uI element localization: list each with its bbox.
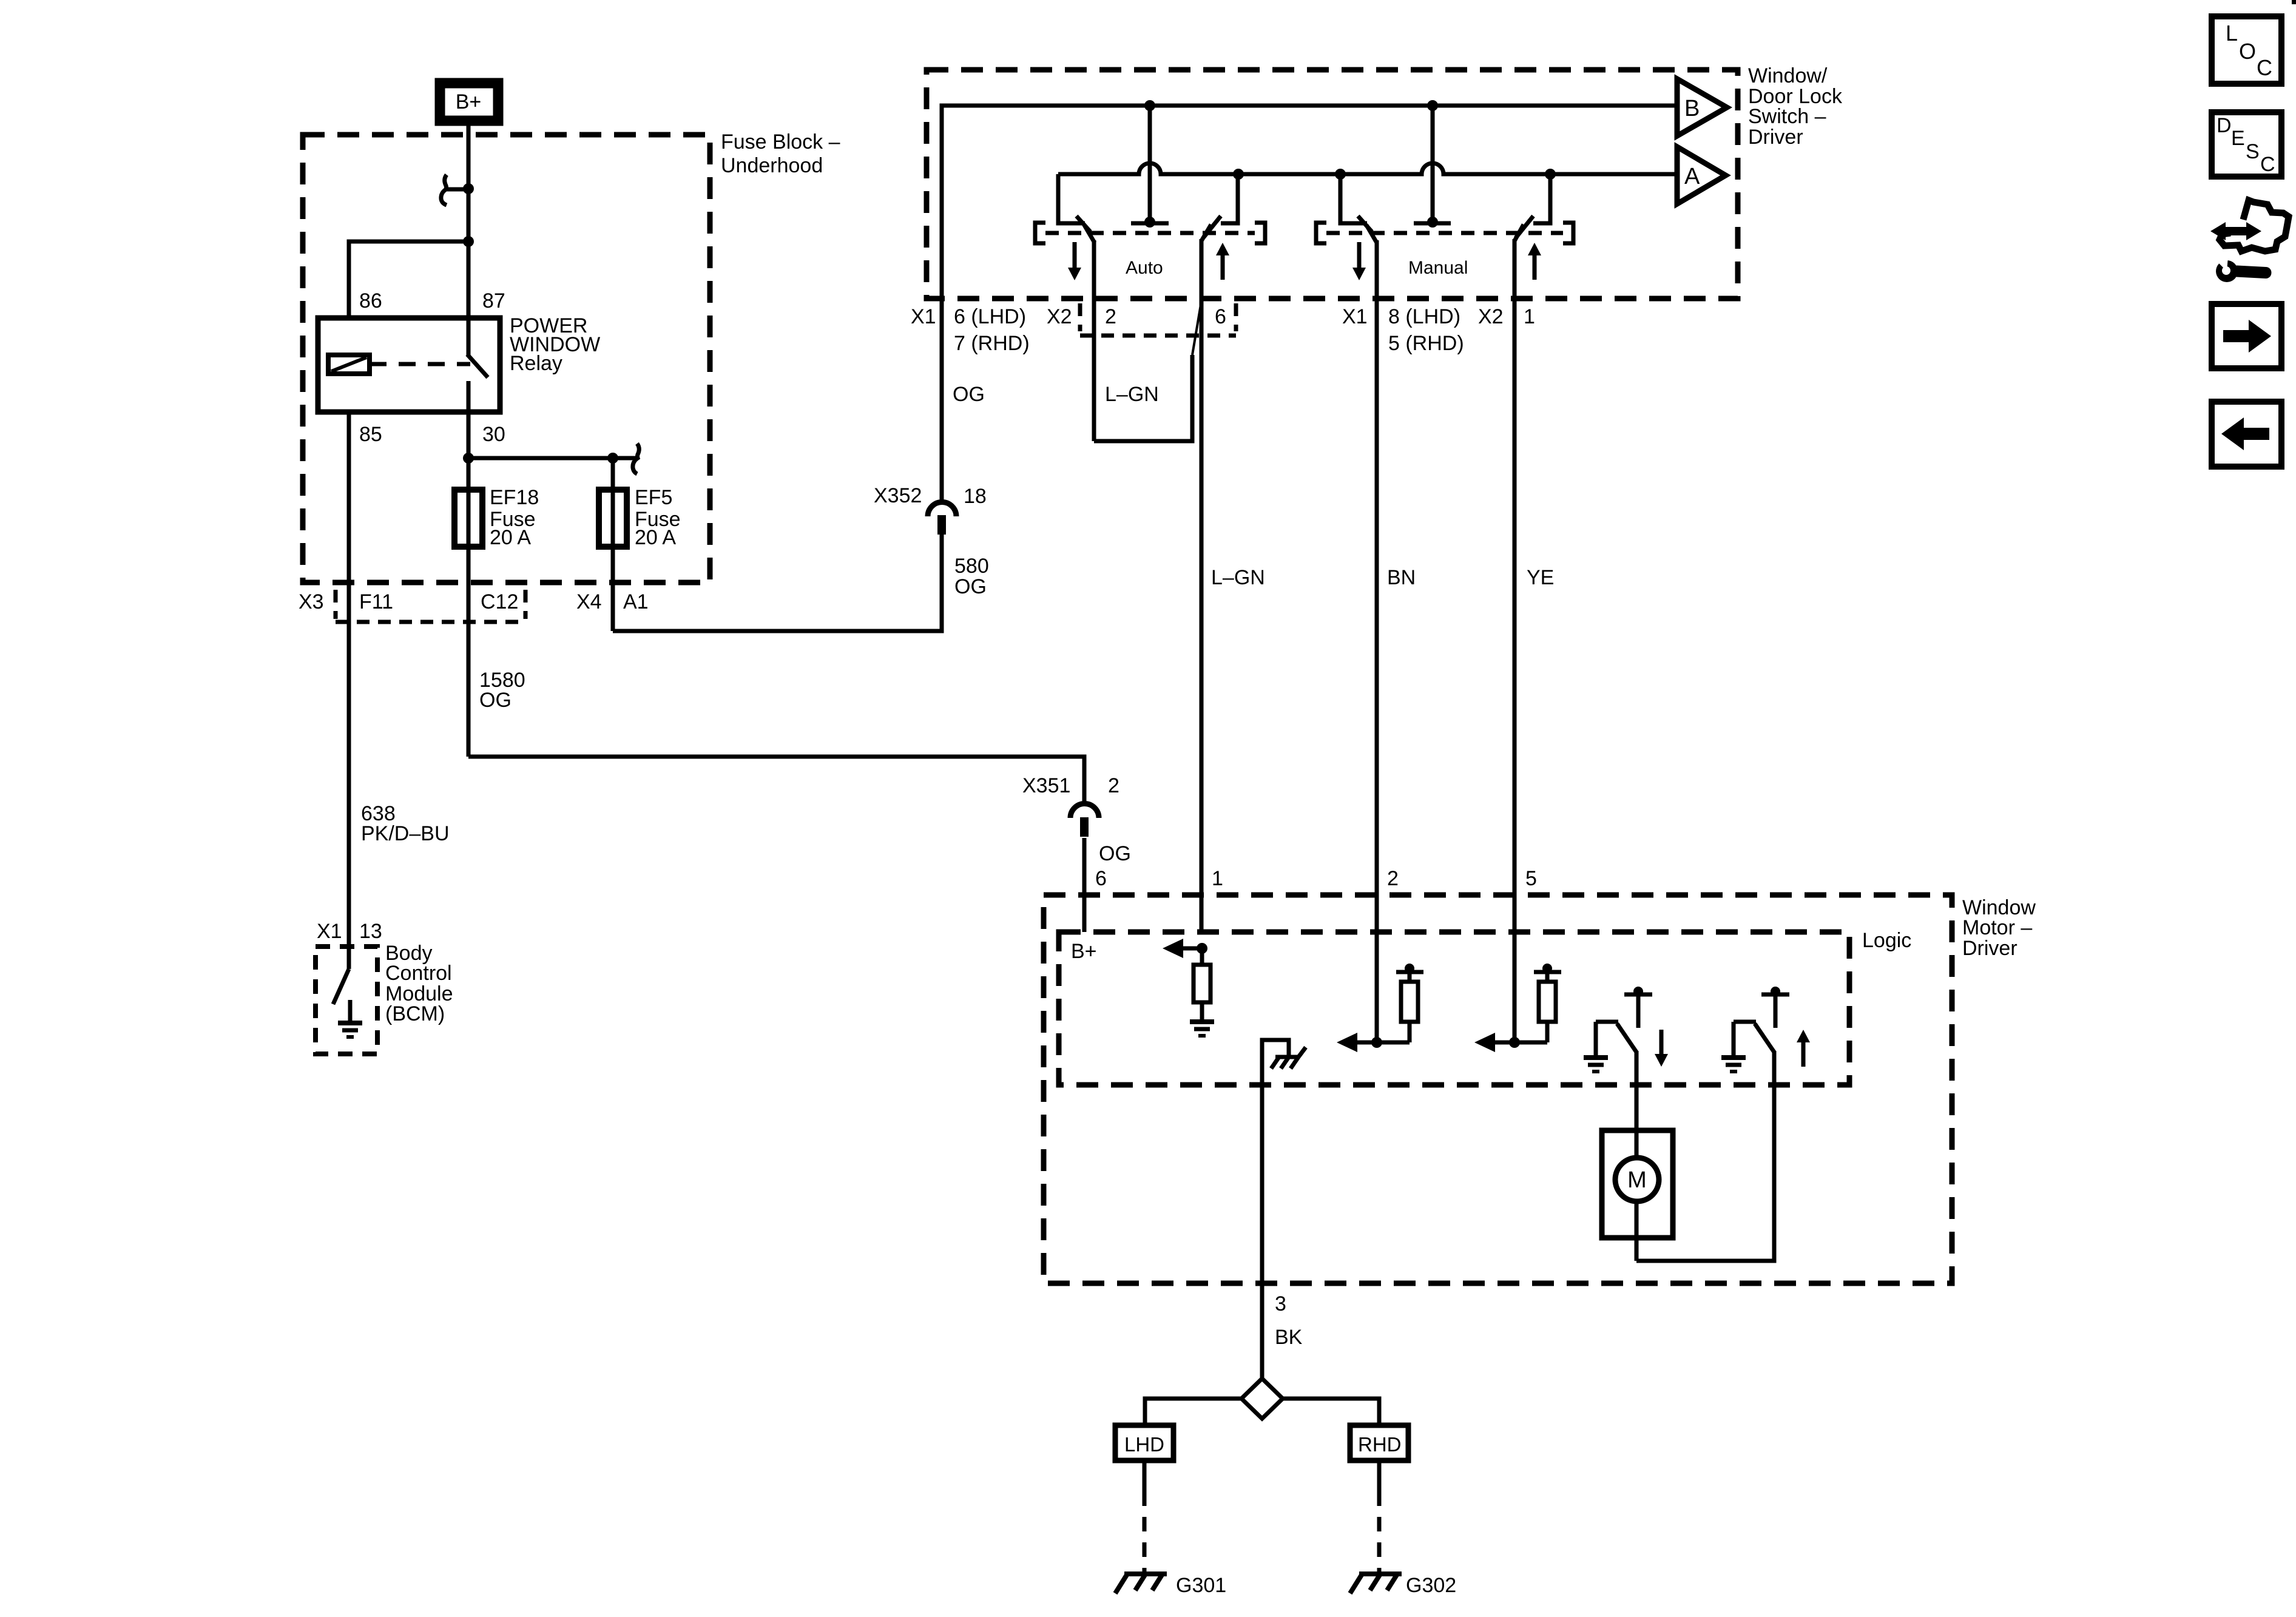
fuse EF18 20A (454, 490, 482, 547)
svg-text:1: 1 (1212, 867, 1223, 890)
arrow up (auto) (1216, 243, 1229, 255)
wire (1635, 1130, 1639, 1158)
hand outline (2220, 200, 2289, 251)
wire (1534, 970, 1561, 974)
svg-text:B+: B+ (1071, 940, 1097, 963)
wire to EF5 fuse (468, 456, 613, 461)
bracket right manual (1563, 223, 1573, 243)
svg-text:O: O (2239, 39, 2256, 64)
wire (1396, 970, 1423, 974)
wire (1801, 1042, 1806, 1067)
svg-text:Fuse Block –: Fuse Block – (721, 130, 840, 154)
svg-text:87: 87 (482, 289, 505, 312)
wire (1594, 1022, 1598, 1056)
svg-text:Underhood: Underhood (721, 154, 823, 177)
wire (1774, 996, 1778, 1028)
bracket left manual (1316, 223, 1326, 243)
junction dot B line / auto common (1144, 100, 1155, 111)
relay coil (328, 355, 370, 374)
wire to motor + (1635, 1051, 1639, 1130)
wire (441, 175, 447, 205)
contact tick (1203, 216, 1221, 238)
svg-text:Manual: Manual (1408, 258, 1468, 278)
wire splice to LHD (1145, 1399, 1241, 1425)
svg-text:M: M (1627, 1167, 1647, 1193)
auto up contact (1221, 174, 1238, 223)
svg-text:6 (LHD): 6 (LHD) (954, 305, 1026, 328)
wire YE manual-up to motor (1513, 239, 1517, 1042)
wire (1545, 1022, 1550, 1042)
switch blade (1366, 225, 1377, 243)
arrow up (manual) (1528, 243, 1541, 255)
BCM internal switch blade (333, 969, 349, 1004)
junction dot (1427, 217, 1438, 228)
svg-text:Switch –: Switch – (1748, 105, 1826, 128)
wire (467, 381, 471, 412)
wire (336, 620, 525, 624)
svg-text:X1: X1 (1342, 305, 1368, 328)
svg-text:3: 3 (1275, 1292, 1286, 1315)
wire splice to RHD (1283, 1399, 1379, 1425)
switch blade (1514, 224, 1524, 241)
wire B line (942, 106, 1677, 501)
logic dashed box (1059, 932, 1849, 1085)
svg-text:Driver: Driver (1748, 126, 1803, 149)
power window relay K box (318, 318, 500, 412)
switch blade (1201, 224, 1211, 241)
junction dot A line manual-down (1335, 169, 1346, 180)
manual up contact (1533, 174, 1550, 223)
svg-text:86: 86 (359, 289, 382, 312)
svg-text:2: 2 (1105, 305, 1116, 328)
connector X3 sub box (dashed) (334, 590, 338, 619)
wire (467, 354, 488, 377)
relay coil-contact dashed link (370, 362, 470, 366)
LHD ground drop (1143, 1460, 1147, 1491)
svg-text:18: 18 (964, 485, 987, 508)
svg-text:X1: X1 (317, 920, 342, 943)
svg-text:Auto: Auto (1126, 258, 1163, 278)
wire (467, 490, 471, 547)
clip symbol on B+ feed (445, 187, 466, 192)
svg-text:YE: YE (1527, 566, 1554, 589)
contact tick (1516, 216, 1533, 238)
svg-text:Control: Control (385, 962, 452, 985)
window motor driver dashed box (1044, 895, 1952, 1283)
triangle connector B (1677, 79, 1727, 136)
svg-text:BK: BK (1275, 1326, 1303, 1349)
junction dot (1405, 964, 1414, 973)
junction dot EF5 feed (607, 453, 618, 464)
wire relay 85 to BCM (347, 412, 351, 947)
junction dot B+ clip (463, 183, 474, 194)
svg-text:6: 6 (1095, 867, 1107, 890)
manual switch common drop (1431, 106, 1435, 220)
battery feed B+ box (440, 83, 498, 121)
chassis ground logic (1275, 1055, 1298, 1059)
blade down-drive (1617, 1024, 1636, 1052)
wire (1143, 1491, 1147, 1571)
arrow into logic pin2 (1337, 1033, 1357, 1052)
junction dot pin30/fuses (463, 453, 474, 464)
svg-text:RHD: RHD (1358, 1433, 1402, 1456)
svg-text:E: E (2231, 127, 2245, 150)
box (316, 947, 377, 1054)
resistor pin2 (1401, 982, 1418, 1022)
svg-text:2: 2 (1387, 867, 1399, 890)
manual down contact (1340, 174, 1367, 223)
svg-text:G302: G302 (1406, 1574, 1456, 1597)
wire BN manual-down to motor (1375, 240, 1379, 1042)
arrowhead (2249, 320, 2271, 353)
wire (1200, 1002, 1204, 1021)
motor M (1602, 1130, 1673, 1238)
triangle connector A (1677, 147, 1726, 204)
ground G301 (1124, 1571, 1167, 1576)
svg-text:1: 1 (1524, 305, 1535, 328)
wire (1234, 303, 1238, 331)
svg-text:Logic: Logic (1862, 929, 1911, 952)
wire (1732, 1022, 1736, 1056)
svg-text:(BCM): (BCM) (385, 1002, 445, 1025)
wire motor return (1636, 1051, 1774, 1261)
svg-text:D: D (2217, 114, 2232, 137)
wire (331, 357, 366, 371)
wire (1045, 231, 1255, 235)
wire (524, 590, 528, 619)
wire (1408, 973, 1412, 982)
icon DESC (2212, 112, 2281, 177)
svg-text:L–GN: L–GN (1105, 383, 1159, 406)
connector X2 sub box (dashed) (1078, 303, 1082, 331)
svg-text:OG: OG (954, 575, 987, 598)
auto switch common drop (1148, 106, 1152, 220)
wire (1533, 255, 1537, 280)
motor down drive switch (1624, 993, 1652, 997)
switch blade (1084, 225, 1095, 243)
RHD ground drop (1377, 1460, 1382, 1491)
svg-text:Relay: Relay (510, 352, 562, 375)
wire (1182, 947, 1202, 951)
wire to relay pin 86 (349, 241, 468, 318)
svg-text:LHD: LHD (1124, 1433, 1164, 1456)
clip symbol at EF5 feed (613, 456, 636, 461)
svg-text:X2: X2 (1478, 305, 1504, 328)
LHD box (1115, 1425, 1173, 1460)
svg-text:C12: C12 (481, 590, 518, 613)
wire A line with hops (1058, 163, 1677, 174)
svg-text:B+: B+ (456, 90, 482, 113)
wire (1596, 1020, 1618, 1024)
wire (1635, 1201, 1639, 1261)
window/door lock switch driver dashed box (927, 70, 1738, 299)
wire (1494, 1041, 1547, 1045)
icon LOC (2212, 16, 2281, 84)
svg-text:A: A (1684, 164, 1700, 189)
RHD box (1350, 1425, 1408, 1460)
svg-text:Window/: Window/ (1748, 64, 1828, 87)
bracket left auto (1035, 223, 1045, 243)
BN input: arrow and pull-up resistor (1371, 1037, 1382, 1048)
wire (1356, 1041, 1410, 1045)
relay contact 87-30 (467, 318, 471, 356)
wire 580 OG : fuse EF5/A1 to X352 (611, 547, 615, 631)
svg-text:Driver: Driver (1962, 937, 2017, 960)
svg-text:8 (LHD): 8 (LHD) (1388, 305, 1460, 328)
ground G302 (1359, 1571, 1402, 1576)
L-GN jumper loop pin2-pin6 (1192, 305, 1201, 355)
blade up-drive (1755, 1024, 1774, 1052)
ground inside BCM (338, 1021, 362, 1025)
svg-text:L: L (2226, 21, 2238, 46)
svg-text:X3: X3 (299, 590, 324, 613)
svg-text:13: 13 (359, 920, 382, 943)
wire (1408, 1022, 1412, 1042)
page corner mark (2292, 0, 2296, 4)
wire (468, 757, 1084, 806)
svg-text:PK/D–BU: PK/D–BU (361, 822, 450, 845)
svg-text:C: C (2257, 55, 2272, 80)
junction dot (1771, 987, 1780, 996)
svg-text:5: 5 (1525, 867, 1537, 890)
connector pin X351 (1080, 817, 1089, 837)
wire (1636, 996, 1641, 1028)
YE input: arrow and pull-up resistor (1509, 1037, 1520, 1048)
wire auto-down to pin2 (1092, 240, 1096, 441)
svg-text:580: 580 (954, 555, 989, 578)
wire (1200, 948, 1204, 965)
wire (1131, 221, 1169, 226)
wire (1414, 221, 1451, 226)
arrow into logic pin1 (1163, 939, 1183, 958)
connector arc X352 (928, 502, 956, 517)
svg-text:X352: X352 (874, 484, 922, 507)
svg-text:2: 2 (1108, 774, 1119, 797)
ground pin1 resistor (1190, 1019, 1214, 1024)
wire (1734, 1020, 1756, 1024)
wire OG to motor B+ (1082, 838, 1087, 932)
wire (613, 534, 942, 631)
resistor pin5 (1539, 982, 1556, 1022)
icon arrow left (2212, 402, 2281, 467)
arrow into logic pin5 (1474, 1033, 1495, 1052)
contact tick (1358, 216, 1372, 232)
svg-text:A1: A1 (623, 590, 649, 613)
double arrow (2210, 222, 2261, 240)
arrowhead (1068, 268, 1081, 280)
wire L-GN auto-up / pin6 to motor (1200, 239, 1204, 932)
wire (1094, 355, 1192, 441)
svg-text:X351: X351 (1022, 774, 1070, 797)
splice diamond (1241, 1379, 1283, 1419)
icon arrow right (2212, 304, 2281, 368)
wire (633, 444, 639, 474)
svg-text:30: 30 (482, 423, 505, 446)
arrowhead (2221, 417, 2244, 450)
fuse block underhood dashed box (303, 135, 710, 582)
arrow up (drive) (1797, 1030, 1810, 1042)
arrowhead (1655, 1054, 1668, 1067)
svg-text:20 A: 20 A (490, 526, 531, 549)
svg-text:BN: BN (1387, 566, 1416, 589)
L-GN input: arrow, pull-down resistor, ground (1197, 943, 1207, 954)
wire (1545, 973, 1550, 982)
auto down contact (1058, 174, 1085, 223)
svg-text:Motor –: Motor – (1962, 916, 2032, 939)
svg-text:7 (RHD): 7 (RHD) (954, 332, 1030, 355)
wire (1080, 334, 1236, 338)
arrow down (manual) (1357, 242, 1362, 268)
wire (1377, 1491, 1382, 1571)
svg-text:OG: OG (479, 689, 512, 712)
BCM pin stub (347, 947, 351, 969)
contact tick (1076, 216, 1090, 232)
junction dot B line / manual common (1427, 100, 1438, 111)
wire (1326, 231, 1563, 235)
resistor pin1 (1194, 965, 1210, 1002)
svg-text:5 (RHD): 5 (RHD) (1388, 332, 1464, 355)
connector pin X352 (937, 515, 946, 535)
svg-text:OG: OG (953, 383, 985, 406)
junction dot A line manual-up (1545, 169, 1556, 180)
svg-text:C: C (2260, 153, 2275, 176)
wire 1580 OG : fuse EF18 to X351 (467, 547, 471, 757)
arrow down (drive) (1660, 1030, 1664, 1054)
svg-text:F11: F11 (359, 590, 393, 613)
svg-text:L–GN: L–GN (1211, 566, 1265, 589)
svg-text:X4: X4 (576, 590, 602, 613)
motor up drive switch (1761, 993, 1789, 997)
wire (1221, 255, 1225, 280)
svg-text:B: B (1684, 96, 1700, 121)
junction dot A line auto-up (1233, 169, 1244, 180)
arrow down (auto) (1073, 242, 1077, 268)
ground up-drive (1721, 1055, 1746, 1060)
box (599, 490, 627, 547)
wire (611, 490, 615, 547)
BCM ground stem (348, 1000, 353, 1022)
svg-text:G301: G301 (1176, 1574, 1226, 1597)
wire B+ feed down into fuse block (467, 121, 471, 318)
bracket right auto (1255, 223, 1265, 243)
internal ground hook (pin3) (1262, 1040, 1289, 1379)
connector arc X351 (1070, 804, 1099, 819)
svg-text:85: 85 (359, 423, 382, 446)
junction dot (1633, 987, 1643, 996)
svg-text:6: 6 (1215, 305, 1226, 328)
junction dot (1542, 964, 1552, 973)
svg-text:EF18: EF18 (490, 486, 539, 509)
svg-text:OG: OG (1099, 842, 1131, 865)
wire relay 30 down (467, 412, 471, 490)
junction dot (1144, 217, 1155, 228)
svg-text:X1: X1 (911, 305, 936, 328)
ground down-drive (1584, 1055, 1608, 1060)
fuse EF5 20A (611, 458, 615, 490)
svg-text:X2: X2 (1047, 305, 1072, 328)
node 87 feed junction (463, 236, 474, 247)
arrowhead (1352, 268, 1366, 280)
svg-text:EF5: EF5 (635, 486, 672, 509)
svg-text:S: S (2246, 140, 2260, 163)
svg-text:20 A: 20 A (635, 526, 676, 549)
wrench (2216, 260, 2238, 282)
